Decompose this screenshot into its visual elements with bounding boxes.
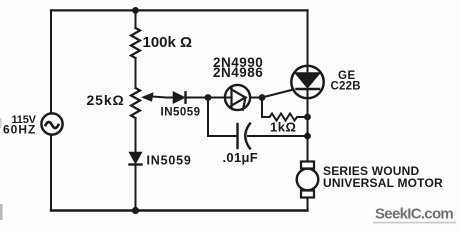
label 1kΩ: [270, 120, 296, 135]
wire middle branch between pot and diode D2: [135, 118, 137, 152]
scan smudge left edge: [0, 118, 3, 220]
wire motor to bottom rail: [307, 198, 309, 211]
label C22B: [331, 81, 361, 93]
capacitor C1 .01uF: [238, 124, 251, 149]
wire gate lead to SCR Q1: [262, 90, 294, 98]
wire bottom rail: [51, 209, 308, 211]
label UNIVERSAL MOTOR: [323, 176, 443, 190]
wire wiper row to diode D1: [166, 97, 174, 99]
node junction C (1k to cathode): [304, 114, 311, 121]
wire left rail upper: [50, 10, 52, 113]
watermark underline artifact: [373, 222, 456, 224]
trigger diode U1 2N4990/2N4986: [225, 85, 250, 110]
watermark SeekIC.com: [375, 206, 453, 223]
wire middle branch bottom: [135, 166, 137, 211]
svg-text:2N4986: 2N4986: [213, 65, 263, 80]
node junction top (middle branch): [132, 7, 139, 14]
label IN5059 (D2): [147, 154, 192, 168]
label .01μF: [223, 150, 258, 165]
label GE: [338, 70, 356, 82]
motor M1 brush block top: [301, 162, 314, 169]
wire node B down to 1k resistor: [262, 98, 266, 118]
wire trigger U1 to node B: [250, 97, 262, 99]
wire middle branch between 100k and pot: [135, 58, 137, 88]
svg-text:IN5059: IN5059: [147, 154, 192, 168]
AC source V1 115V 60Hz: [41, 113, 62, 134]
node junction bottom (middle branch): [132, 207, 139, 214]
diode D1 1N5059 (horizontal): [174, 92, 186, 102]
node junction B (gate): [259, 94, 266, 101]
svg-text:SeekIC.com: SeekIC.com: [375, 206, 453, 223]
wire 1k resistor to cathode rail: [300, 116, 308, 118]
motor M1 body: [297, 169, 319, 191]
svg-text:C22B: C22B: [331, 81, 361, 93]
wire node A down to capacitor: [208, 98, 237, 137]
node junction D (cap to cathode): [304, 133, 311, 140]
svg-text:60HZ: 60HZ: [3, 123, 36, 137]
label 2N4986: [213, 65, 263, 80]
wire SCR cathode down to motor: [307, 89, 309, 162]
motor M1 brush block bottom: [301, 191, 314, 198]
potentiometer wiper arrow: [141, 92, 167, 102]
svg-text:1kΩ: 1kΩ: [270, 120, 296, 135]
diode D2 1N5059 (vertical): [130, 153, 142, 165]
svg-text:100k Ω: 100k Ω: [143, 34, 193, 51]
wire diode D1 to trigger U1: [186, 97, 232, 99]
label 2N4990: [213, 55, 263, 70]
label IN5059 (D1): [161, 107, 201, 119]
svg-text:IN5059: IN5059: [161, 107, 201, 119]
label SERIES WOUND: [323, 164, 420, 178]
resistor 100kΩ: [131, 28, 140, 58]
label 60HZ: [3, 123, 36, 137]
label 100kΩ: [143, 34, 193, 51]
wire capacitor to cathode rail: [248, 135, 308, 137]
wire right rail top: [307, 10, 309, 66]
node junction A (diode/cap): [205, 94, 212, 101]
label 25kΩ: [87, 92, 125, 108]
svg-text:25kΩ: 25kΩ: [87, 92, 125, 108]
label 115V: [12, 114, 37, 126]
svg-text:.01μF: .01μF: [223, 150, 258, 165]
resistor 1kΩ: [266, 114, 300, 121]
wire left rail lower: [50, 135, 52, 211]
wire top rail: [51, 9, 308, 11]
SCR Q1 GE C22B: [291, 66, 323, 98]
wire middle branch top: [135, 10, 137, 28]
svg-text:UNIVERSAL MOTOR: UNIVERSAL MOTOR: [323, 176, 443, 190]
potentiometer 25kΩ body: [131, 88, 140, 118]
